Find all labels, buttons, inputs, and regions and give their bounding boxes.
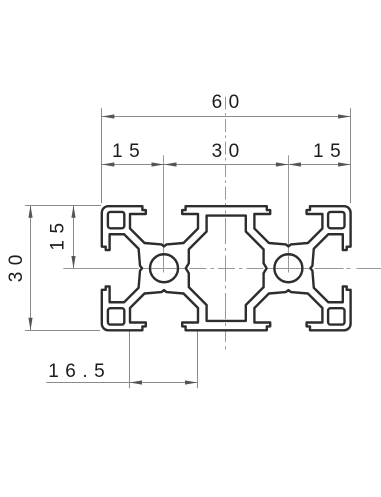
svg-text:15: 15 <box>112 141 146 162</box>
centerline horizontal (across chamber, dash-dot) <box>190 268 264 270</box>
central chamber octagon <box>186 216 267 321</box>
svg-text:16.5: 16.5 <box>48 361 111 382</box>
profile outer contour with six T-slots <box>102 206 351 330</box>
centerline horizontal (right of profile, dash-dot) <box>315 268 381 270</box>
dimension line 15 vertical <box>73 205 75 268</box>
centerline slot axis x=288.4 <box>288 155 290 272</box>
centerline vertical x=225.4 (inside profile) <box>225 206 227 330</box>
svg-text:60: 60 <box>212 92 246 113</box>
corner square hole top-left <box>108 212 124 228</box>
extension line 16.5 right x=198 <box>197 331 199 388</box>
svg-text:15: 15 <box>48 216 69 250</box>
svg-text:15: 15 <box>313 141 347 162</box>
centerline slot axis x=164 <box>163 155 165 272</box>
dimension line 60 <box>102 116 351 118</box>
centerline horizontal y=268.4 (left of profile into left circle) <box>63 268 138 270</box>
dimension line 16.5 <box>46 382 198 384</box>
core hole circle left <box>150 254 178 282</box>
centerline horizontal (through right circle) <box>267 268 310 270</box>
svg-text:30: 30 <box>6 248 27 282</box>
core hole circle right <box>274 254 302 282</box>
corner square hole bottom-right <box>328 308 344 324</box>
centerline vertical x=225.4 (below profile) <box>225 330 227 352</box>
centerline horizontal (through left circle) <box>143 268 186 270</box>
centerline vertical x=225.4 (profile middle axis, above profile) <box>225 97 227 207</box>
extension line top y=205.3 <box>25 205 101 207</box>
corner square hole top-right <box>328 212 344 228</box>
extension line left x=101.8 <box>101 108 103 203</box>
extension line 16.5 left x=129.9 <box>129 331 131 388</box>
corner square hole bottom-left <box>108 308 124 324</box>
extension line right x=350.6 <box>350 108 352 203</box>
dimension line 30 vertical <box>30 205 32 330</box>
svg-text:30: 30 <box>212 141 246 162</box>
dimension line 15/30/15 <box>102 164 351 166</box>
extension line bottom y=330.3 <box>25 330 100 332</box>
